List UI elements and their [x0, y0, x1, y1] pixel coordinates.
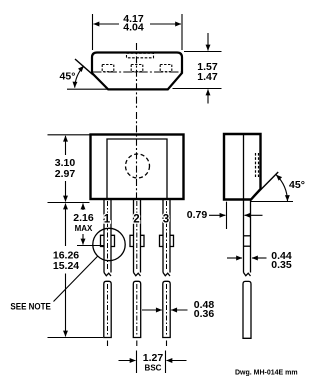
front view body outline	[91, 135, 184, 200]
svg-text:3: 3	[163, 214, 169, 226]
45 degree chamfer extension line (side view)	[251, 172, 278, 200]
lead 3 upper segment	[163, 199, 170, 276]
side view hidden tab (dashed)	[256, 153, 259, 177]
side view lead upper segment	[244, 200, 251, 277]
svg-text:0.79: 0.79	[187, 209, 208, 221]
side view internal line	[243, 134, 245, 200]
svg-text:Dwg. MH-014E mm: Dwg. MH-014E mm	[235, 369, 298, 376]
dimension 1.57/1.47 arrows	[207, 33, 209, 51]
top view hidden lead 3 (dashed)	[160, 65, 172, 72]
svg-text:1: 1	[104, 214, 111, 226]
45 degree chamfer extension line (top view)	[75, 59, 93, 75]
lead 3 shoulder	[160, 235, 174, 246]
lead 1 shoulder	[101, 235, 115, 246]
lead 2 upper segment	[134, 199, 141, 276]
dimension 0.79 extension line	[226, 202, 228, 229]
top view outline	[92, 53, 182, 90]
svg-text:4.04: 4.04	[123, 22, 144, 34]
dimension 3.10/2.97 extension lines	[48, 134, 90, 136]
top view horizontal centerline	[93, 71, 184, 73]
lead 1 upper segment	[104, 199, 111, 276]
45 degree arc arrow (top view)	[75, 66, 84, 88]
top view hidden tab (dashed)	[127, 53, 154, 58]
dimension 0.48/0.36 arrows	[142, 309, 162, 311]
lead 3 lower segment	[163, 281, 170, 337]
dimension 4.17/4.04 arrows	[94, 23, 120, 25]
lead 2 shoulder	[130, 235, 144, 246]
dimension 1.57/1.47 extension lines	[184, 51, 222, 53]
dimension 0.44/0.35 arrows	[227, 257, 242, 259]
dimension 1.27 BSC arrows	[119, 360, 136, 362]
svg-text:2: 2	[133, 214, 139, 226]
lead 3 centerline	[166, 201, 168, 271]
svg-text:45°: 45°	[289, 179, 305, 191]
lead 2 lower segment	[133, 281, 140, 337]
svg-text:2.97: 2.97	[55, 168, 76, 180]
leader line to SEE NOTE	[54, 256, 98, 301]
top view hidden lead 2 (dashed)	[131, 65, 143, 72]
45 degree baseline (side view)	[251, 201, 293, 203]
top view vertical centerline	[136, 43, 138, 110]
lead 1 centerline	[107, 201, 109, 271]
45 degree arc arrow (side view)	[276, 175, 287, 201]
dimension 0.79 arrows	[209, 214, 225, 216]
dimension 2.16 extension line (shoulder bottom)	[77, 245, 104, 247]
dimension 16.26/15.24 arrows	[65, 204, 67, 247]
45 degree baseline (top view)	[67, 88, 109, 90]
svg-text:MAX: MAX	[75, 224, 93, 233]
front view vertical centerline	[136, 112, 138, 199]
dimension 2.16 MAX arrows	[82, 204, 84, 211]
svg-text:2.16: 2.16	[73, 212, 94, 224]
side view lead lower segment	[243, 281, 251, 338]
svg-text:0.36: 0.36	[194, 308, 215, 320]
front view body inner lines	[107, 139, 167, 199]
dimension 1.27 BSC extension lines	[136, 351, 138, 374]
svg-text:BSC: BSC	[145, 363, 162, 372]
svg-text:SEE NOTE: SEE NOTE	[10, 302, 51, 313]
note circle around lead 1 shoulder	[93, 228, 125, 260]
lead 2 centerline	[136, 201, 138, 271]
svg-text:0.35: 0.35	[271, 259, 292, 271]
dimension 4.17/4.04 extension lines	[92, 14, 94, 50]
lead 1 lower segment	[104, 281, 111, 337]
svg-text:1.47: 1.47	[197, 71, 218, 83]
top view hidden lead 1 (dashed)	[102, 65, 114, 72]
front view hidden circle (dashed)	[126, 154, 150, 178]
svg-text:45°: 45°	[60, 70, 76, 82]
svg-text:15.24: 15.24	[53, 260, 79, 272]
dimension 16.26 extension line (lead tips)	[48, 337, 104, 339]
svg-text:1.27: 1.27	[143, 352, 164, 364]
dimension 3.10/2.97 arrows	[65, 136, 67, 155]
side view body outline	[224, 134, 261, 200]
